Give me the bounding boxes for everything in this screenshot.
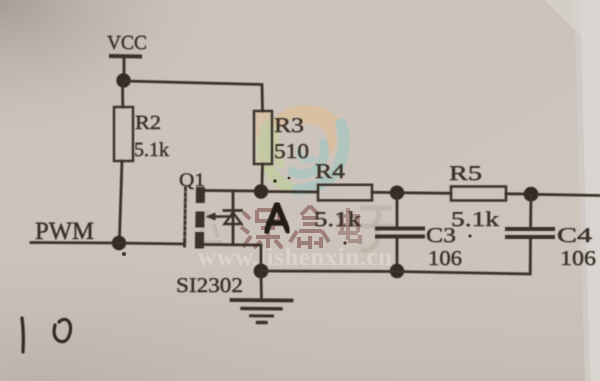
svg-text:R2: R2 <box>135 112 161 134</box>
svg-text:5.1k: 5.1k <box>134 139 169 161</box>
wire R2 bottom to PWM node <box>120 161 123 237</box>
channel stub source <box>195 232 204 249</box>
wire R5 to C4 node <box>506 192 526 195</box>
gate bar (dashed) <box>183 188 187 246</box>
node C3 junction <box>390 186 404 200</box>
svg-text:VCC: VCC <box>107 32 147 54</box>
svg-text:R3: R3 <box>274 113 304 137</box>
body diode triangle <box>225 213 242 225</box>
char dian <box>338 208 360 244</box>
drain lead <box>204 189 258 192</box>
node PWM junction <box>112 236 126 250</box>
page right edge white band <box>574 0 600 381</box>
wire C4 node to right edge <box>537 194 599 195</box>
resistor R2 <box>114 107 133 161</box>
svg-text:PWM: PWM <box>35 218 94 245</box>
body branch vertical <box>232 191 235 245</box>
char shen <box>241 210 282 248</box>
source lead <box>204 245 261 267</box>
resistor R5 <box>451 187 506 201</box>
svg-text:106: 106 <box>560 246 596 270</box>
wire C3 node to R5 <box>402 191 451 194</box>
char xin <box>290 206 329 249</box>
wire PWM line <box>31 243 184 245</box>
svg-text:Q1: Q1 <box>179 170 205 191</box>
svg-text:C4: C4 <box>557 223 593 247</box>
svg-text:106: 106 <box>428 246 462 270</box>
stray ink specks <box>122 177 472 256</box>
svg-text:C3: C3 <box>426 223 456 247</box>
node ground junction <box>254 264 269 279</box>
handwritten page number 1 0 <box>22 318 71 352</box>
svg-text:510: 510 <box>274 139 309 163</box>
wire R3 bottom to node A <box>261 164 264 185</box>
transistor Q1 SI2302 <box>185 187 261 266</box>
wire VCC node down to R2 <box>121 84 124 107</box>
body arrow line <box>210 215 233 217</box>
svg-text:www.lishenxin.cn: www.lishenxin.cn <box>198 244 392 271</box>
body arrow head <box>206 213 216 221</box>
capacitor C4 <box>507 195 553 274</box>
channel stub body <box>195 212 204 228</box>
node C3 bottom junction <box>390 264 404 278</box>
channel stub drain <box>196 187 205 203</box>
capacitor C3 <box>377 193 423 268</box>
svg-text:5.1k: 5.1k <box>314 207 362 231</box>
wire node A to R4 <box>267 190 318 193</box>
wire bottom rail <box>261 271 530 274</box>
node A junction (drain) <box>254 184 268 198</box>
svg-text:SI2302: SI2302 <box>176 273 243 297</box>
faint char li (behind Q1) <box>196 210 222 242</box>
node VCC junction <box>116 73 130 87</box>
resistor R4 <box>318 185 372 201</box>
node C4 junction <box>524 187 539 202</box>
svg-text:R4: R4 <box>315 159 346 183</box>
wire R4 to C3 node <box>372 191 392 194</box>
faint gray char zi (overlap) <box>358 208 394 250</box>
power VCC symbol <box>111 56 140 74</box>
ground <box>232 271 292 323</box>
resistor R3 <box>254 111 272 164</box>
wire VCC node to R3 top <box>124 81 263 111</box>
svg-text:5.1k: 5.1k <box>451 207 500 231</box>
svg-text:R5: R5 <box>449 161 482 185</box>
body diode cathode bar <box>224 209 242 212</box>
handwritten letter A marking node A <box>266 204 288 232</box>
